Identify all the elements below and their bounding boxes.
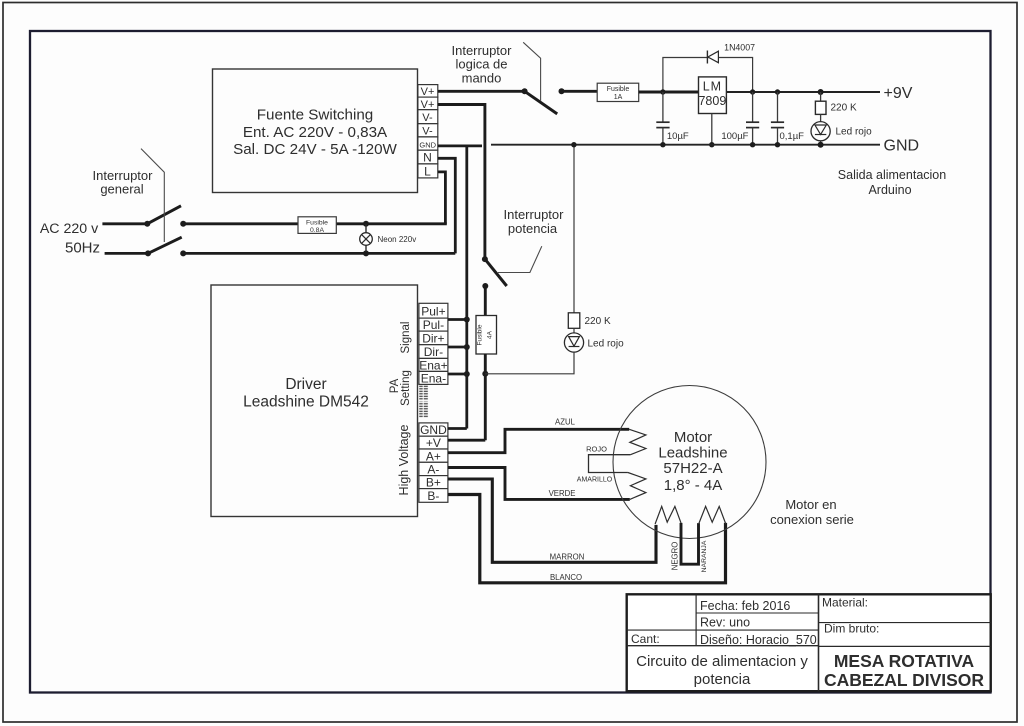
power supply PSU box Fuente Switching — [213, 69, 418, 193]
wire PSU GND terminal stub — [438, 144, 482, 147]
svg-text:Material:: Material: — [822, 596, 868, 610]
wire +9V rail: LM7809 output to +9V — [726, 91, 880, 93]
svg-text:B+: B+ — [426, 476, 441, 490]
wire V+ terminal to logic switch — [438, 90, 525, 93]
svg-text:potencia: potencia — [694, 671, 751, 688]
svg-text:Led rojo: Led rojo — [588, 338, 625, 349]
label AC 220 v 50Hz — [40, 221, 100, 257]
motor coil winding C bottom (MARRON-NEGRO) — [655, 506, 681, 524]
motor coil winding A upper (AZUL-ROJO) — [629, 429, 646, 454]
wire V+ 24V riser to power switch — [438, 105, 485, 260]
PSU terminal V+ (pin 2) — [418, 97, 438, 111]
resistor R2 220 K — [568, 142, 611, 328]
voltage regulator U1 LM7809 — [698, 77, 726, 114]
wire Ena- stub to ground riser — [448, 373, 467, 376]
wire GND rail — [491, 144, 880, 146]
PSU terminal V+ (pin 1) — [418, 85, 438, 99]
wire series link NEGRO to NARANJA — [681, 523, 699, 564]
diode D1 1N4007 bypass loop — [660, 51, 755, 95]
wire driver +V stub — [448, 439, 485, 442]
svg-text:4A: 4A — [487, 330, 494, 339]
wire AC line bottom: switch to N riser — [183, 252, 455, 255]
svg-text:Interruptor: Interruptor — [504, 207, 565, 222]
svg-text:V+: V+ — [421, 86, 435, 98]
svg-text:Circuito de alimentacion y: Circuito de alimentacion y — [636, 653, 808, 670]
svg-text:Ena-: Ena- — [421, 371, 446, 385]
capacitor C3 0,1uF — [771, 89, 804, 147]
svg-text:Arduino: Arduino — [868, 183, 911, 197]
fuse F3 Fusible 4A — [476, 316, 497, 355]
driver terminal B- — [419, 489, 448, 503]
svg-text:Fecha: feb 2016: Fecha: feb 2016 — [700, 599, 790, 613]
wire U1 ground pin — [709, 114, 714, 148]
driver terminal Ena- — [419, 371, 448, 385]
PSU terminal N (pin 6) — [418, 150, 438, 164]
wire N terminal to AC bottom line — [438, 158, 456, 253]
svg-text:B-: B- — [427, 489, 439, 503]
svg-text:1A: 1A — [614, 94, 623, 101]
svg-text:potencia: potencia — [508, 221, 558, 236]
svg-text:AC 220 v: AC 220 v — [40, 221, 99, 237]
svg-text:High Voltage: High Voltage — [397, 425, 411, 496]
svg-text:Diseño: Horacio_570: Diseño: Horacio_570 — [700, 633, 817, 647]
svg-text:Fusible: Fusible — [607, 86, 630, 93]
svg-text:LM: LM — [703, 80, 722, 94]
svg-text:L: L — [424, 165, 431, 179]
label Motor en conexion serie — [770, 497, 854, 527]
svg-text:general: general — [100, 182, 143, 197]
svg-text:Fusible: Fusible — [477, 324, 484, 345]
svg-text:Dir+: Dir+ — [422, 332, 444, 346]
svg-text:GND: GND — [884, 138, 920, 155]
label Salida alimentacion Arduino — [838, 168, 946, 197]
svg-text:+9V: +9V — [884, 85, 913, 102]
svg-text:Led rojo: Led rojo — [836, 126, 873, 137]
fuse F1 Fusible 0.8A — [298, 217, 336, 234]
switch SW3 interruptor potencia — [482, 256, 507, 289]
title text Circuito de alimentacion y potencia — [636, 653, 808, 688]
PSU terminal V- (pin 3) — [418, 110, 438, 124]
svg-text:Leadshine DM542: Leadshine DM542 — [243, 394, 369, 411]
svg-text:Signal: Signal — [400, 322, 412, 354]
svg-text:1,8° - 4A: 1,8° - 4A — [664, 477, 723, 494]
wire driver GND stub — [448, 427, 467, 430]
svg-text:AMARILLO: AMARILLO — [577, 476, 613, 483]
wire A+ to AZUL motor lead — [448, 429, 629, 452]
svg-text:NEGRO: NEGRO — [671, 542, 680, 571]
wire series link ROJO to AMARILLO — [589, 455, 631, 473]
driver terminal GND — [419, 423, 448, 437]
svg-text:MESA ROTATIVA: MESA ROTATIVA — [834, 651, 975, 671]
svg-text:Setting: Setting — [400, 370, 412, 406]
svg-text:conexion serie: conexion serie — [770, 512, 854, 527]
svg-text:BLANCO: BLANCO — [550, 573, 582, 582]
svg-text:Sal. DC 24V - 5A -120W: Sal. DC 24V - 5A -120W — [233, 141, 397, 158]
wire Dir- stub to ground riser — [448, 346, 467, 349]
svg-text:50Hz: 50Hz — [65, 240, 100, 257]
wire LED branch to +24V node — [485, 352, 574, 374]
LED D2 Led rojo — [811, 122, 872, 148]
svg-text:A+: A+ — [426, 449, 441, 463]
driver terminal B+ — [419, 476, 448, 490]
switch SW1a interruptor general pole 1 (line) — [102, 206, 186, 227]
svg-text:0,1µF: 0,1µF — [780, 131, 805, 142]
svg-text:Leadshine: Leadshine — [658, 445, 727, 462]
switch SW1 actuator link — [141, 149, 164, 242]
svg-text:N: N — [423, 151, 432, 165]
svg-text:Dir-: Dir- — [424, 345, 443, 359]
PSU terminal L (pin 7) — [418, 164, 438, 179]
svg-text:V+: V+ — [421, 99, 435, 111]
svg-text:Neon 220v: Neon 220v — [378, 235, 417, 244]
motor coil winding D bottom (NARANJA-BLANCO) — [699, 506, 726, 524]
svg-text:CABEZAL DIVISOR: CABEZAL DIVISOR — [824, 670, 984, 690]
svg-text:V-: V- — [422, 126, 433, 138]
wire AC line top: switch to fuse to L riser — [183, 222, 447, 225]
driver terminal A+ — [419, 449, 448, 463]
svg-text:Ena+: Ena+ — [419, 358, 447, 372]
svg-text:VERDE: VERDE — [549, 489, 576, 498]
switch SW2 actuator link — [523, 42, 540, 101]
svg-text:AZUL: AZUL — [555, 417, 576, 426]
svg-text:57H22-A: 57H22-A — [663, 460, 722, 477]
PSU terminal GND (pin 5) — [418, 137, 438, 150]
wire Pul- stub to ground riser — [448, 318, 467, 321]
svg-text:10µF: 10µF — [667, 131, 689, 142]
resistor R1 220 K — [815, 89, 857, 122]
svg-text:V-: V- — [422, 112, 433, 124]
switch SW1b interruptor general pole 2 (neutral) — [105, 237, 187, 256]
svg-text:Motor: Motor — [674, 429, 712, 446]
label Interruptor general — [93, 168, 154, 197]
svg-text:7809: 7809 — [698, 94, 726, 108]
neon lamp Neon 220v — [360, 221, 417, 257]
svg-text:Pul+: Pul+ — [421, 304, 445, 318]
svg-text:MARRON: MARRON — [550, 553, 585, 562]
driver box Leadshine DM542 — [211, 285, 418, 517]
svg-text:Cant:: Cant: — [631, 632, 660, 646]
svg-text:GND: GND — [419, 141, 436, 150]
svg-text:100µF: 100µF — [721, 131, 748, 142]
driver terminal Dir+ — [419, 331, 448, 345]
switch SW3 actuator link — [498, 246, 542, 272]
driver terminal Pul- — [419, 318, 448, 332]
label PA Setting (rotated) — [389, 370, 412, 406]
DIP switch block PA setting — [419, 385, 429, 418]
title text MESA ROTATIVA CABEZAL DIVISOR — [824, 651, 984, 690]
svg-text:A-: A- — [427, 463, 439, 477]
driver terminal +V — [419, 436, 448, 450]
label Interruptor logica de mando — [452, 43, 513, 86]
svg-text:Fuente Switching: Fuente Switching — [257, 107, 374, 124]
svg-text:NARANJA: NARANJA — [701, 540, 708, 572]
fuse F2 Fusible 1A — [597, 83, 639, 101]
svg-text:Dim bruto:: Dim bruto: — [824, 622, 879, 636]
driver terminal Ena+ — [419, 358, 448, 372]
capacitor C1 10uF — [656, 92, 689, 147]
svg-text:Pul-: Pul- — [423, 318, 444, 332]
wire fuse F3 to driver +V — [482, 354, 488, 440]
title block dividers — [627, 594, 991, 691]
motor M1 labels — [658, 429, 727, 494]
svg-text:220 K: 220 K — [831, 102, 857, 113]
svg-text:+V: +V — [426, 436, 441, 450]
motor M1 body circle — [613, 386, 766, 539]
svg-text:1N4007: 1N4007 — [724, 42, 755, 52]
wire +9V rail: fuse to LM7809 input — [639, 91, 699, 94]
title block frame — [627, 594, 991, 691]
svg-text:logica de: logica de — [455, 57, 507, 72]
switch SW2 interruptor logica de mando — [522, 88, 565, 114]
svg-text:mando: mando — [462, 71, 502, 86]
LED D3 Led rojo — [564, 328, 624, 352]
PSU terminal V- (pin 4) — [418, 124, 438, 138]
capacitor C2 100uF — [721, 92, 759, 147]
svg-text:Fusible: Fusible — [306, 219, 328, 226]
wire L terminal to AC top line — [438, 172, 446, 224]
svg-text:Driver: Driver — [285, 376, 326, 393]
driver terminal A- — [419, 462, 448, 476]
svg-text:Motor en: Motor en — [785, 497, 836, 512]
driver terminal Pul+ — [419, 303, 448, 318]
wire signal ground riser (GND to driver) — [464, 146, 470, 429]
svg-text:220 K: 220 K — [585, 316, 611, 327]
svg-text:ROJO: ROJO — [586, 445, 607, 454]
wire A- to VERDE motor lead — [448, 468, 630, 500]
wire B- to BLANCO motor lead — [448, 495, 726, 583]
label Interruptor potencia — [504, 207, 565, 236]
driver terminal Dir- — [419, 345, 448, 359]
svg-text:Ent. AC 220V - 0,83A: Ent. AC 220V - 0,83A — [243, 124, 388, 141]
wire logic switch to fuse F2 — [562, 90, 598, 93]
wire power switch to fuse F3 — [484, 286, 487, 316]
wire B+ to MARRON motor lead — [448, 479, 656, 562]
svg-text:Rev: uno: Rev: uno — [700, 616, 750, 630]
svg-text:0.8A: 0.8A — [310, 227, 324, 234]
svg-text:Salida alimentacion: Salida alimentacion — [838, 168, 946, 182]
motor coil winding B lower (AMARILLO-VERDE) — [628, 473, 646, 500]
